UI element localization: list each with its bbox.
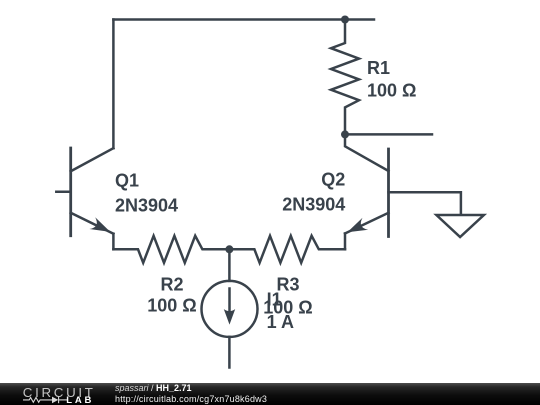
- svg-text:Q1: Q1: [115, 171, 139, 191]
- footer url line: [115, 394, 267, 404]
- node junction R2/R3/I1: [225, 245, 233, 253]
- footer credit line: [115, 383, 192, 393]
- wire Q2 base to ground: [389, 192, 461, 215]
- node junction top rail/R1: [341, 16, 349, 24]
- footer bar: [0, 383, 540, 405]
- logo LAB text: [66, 395, 94, 405]
- svg-text:100 Ω: 100 Ω: [367, 81, 416, 101]
- transistor Q1 base stub: [56, 191, 70, 194]
- transistor Q1 base bar: [69, 148, 72, 236]
- wire top rail: [113, 18, 374, 21]
- node junction R1/Q2 collector: [341, 130, 349, 138]
- wire Q2 emitter down: [344, 234, 347, 250]
- ground symbol: [436, 215, 484, 237]
- resistor R1: [331, 20, 359, 135]
- svg-text:100 Ω: 100 Ω: [147, 295, 196, 315]
- resistor R3: [229, 236, 345, 263]
- wire I1 bottom stub: [228, 337, 231, 368]
- transistor Q2 base bar: [387, 149, 390, 237]
- svg-text:Q2: Q2: [321, 169, 345, 189]
- wire node to I1: [228, 249, 231, 281]
- svg-text:2N3904: 2N3904: [282, 194, 345, 214]
- transistor Q1 emitter lead: [71, 213, 114, 234]
- svg-text:2N3904: 2N3904: [115, 195, 178, 215]
- transistor Q2 emitter arrow: [347, 218, 368, 233]
- svg-text:I1: I1: [267, 290, 282, 310]
- transistor Q1 collector lead: [71, 148, 114, 171]
- wire left vertical: [112, 20, 115, 149]
- svg-text:1 A: 1 A: [267, 312, 294, 332]
- logo CIRCUIT text: [23, 385, 96, 400]
- resistor R2: [113, 236, 229, 263]
- wire collector node to right: [345, 133, 432, 136]
- svg-text:R2: R2: [160, 275, 183, 295]
- transistor Q2 emitter lead: [345, 213, 389, 234]
- logo schematic squiggle: [23, 395, 71, 405]
- svg-text:R1: R1: [367, 58, 390, 78]
- current source I1: [202, 281, 258, 337]
- transistor Q1 emitter arrow: [89, 217, 110, 232]
- wire Q1 emitter down: [112, 234, 115, 250]
- transistor Q2 collector lead: [345, 134, 389, 171]
